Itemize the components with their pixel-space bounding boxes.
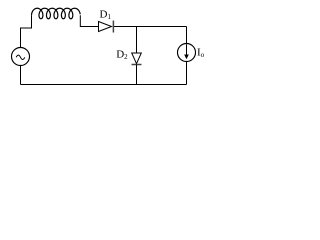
wire: D2 branch upper vertical xyxy=(136,27,138,54)
current source Io arrow shaft xyxy=(186,44,188,55)
wire: AC source top lead with jog xyxy=(21,15,32,47)
wire: right branch upper vertical xyxy=(186,27,188,44)
wire: bottom rail xyxy=(21,84,187,86)
diode D2 triangle xyxy=(132,53,142,64)
wire: AC source bottom lead xyxy=(20,66,22,85)
wire: top rail from D1 to right branch xyxy=(114,26,186,28)
wire: inductor output drop to top rail xyxy=(80,15,98,26)
current source Io arrowhead xyxy=(184,55,189,60)
diode D1 triangle xyxy=(99,22,112,32)
inductor L1 coil xyxy=(32,8,81,19)
svg-text:D2: D2 xyxy=(116,48,128,61)
wire: right branch lower vertical xyxy=(186,62,188,85)
diode D2 cathode bar xyxy=(132,64,142,66)
AC source Vs circle xyxy=(12,48,30,66)
AC source sine symbol xyxy=(16,55,25,59)
svg-text:D1: D1 xyxy=(100,9,112,22)
wire: D2 branch lower vertical xyxy=(136,65,138,85)
diode D1 cathode bar xyxy=(112,21,114,33)
svg-text:Io: Io xyxy=(197,47,205,60)
current source Io circle xyxy=(178,44,196,62)
